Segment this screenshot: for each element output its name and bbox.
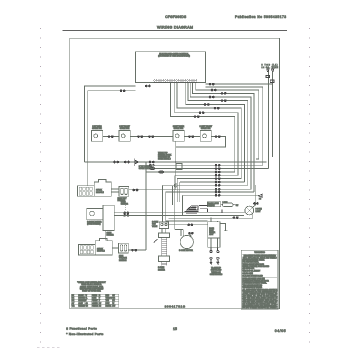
legend table text — [72, 294, 116, 307]
fold mark right dotted line — [309, 28, 311, 346]
svg-text:NOTE: SEE SHEET 2 FOR THE: NOTE: SEE SHEET 2 FOR THE — [242, 278, 264, 280]
oven gas valve solenoid — [159, 222, 168, 228]
svg-text:IGNITER: IGNITER — [158, 269, 166, 271]
components note text — [77, 281, 106, 293]
junction dot — [175, 161, 177, 163]
oven sensor double wire — [114, 213, 245, 216]
fan wires connector pairs — [194, 83, 226, 117]
wire drop from chain through junction — [175, 141, 177, 190]
convection motor circle — [180, 235, 193, 248]
fan wire F6 — [188, 83, 248, 186]
wire color legend table — [71, 294, 118, 307]
oven light wire top — [252, 185, 255, 207]
svg-text:USED ON YOUR UNIT.: USED ON YOUR UNIT. — [82, 291, 101, 293]
sensor drop dashed — [124, 205, 126, 211]
svg-text:WIRING DIAGRAM: WIRING DIAGRAM — [157, 26, 193, 30]
wire drops from rows to lower components — [163, 175, 183, 229]
lock motor top wires — [211, 218, 217, 222]
svg-text:(OVEN BURNER): (OVEN BURNER) — [87, 223, 101, 225]
svg-text:‡ CONV MOTOR: ‡ CONV MOTOR — [179, 250, 194, 252]
svg-text:PINK: PINK — [106, 303, 110, 305]
fan wire F2 — [205, 87, 262, 165]
junction arrow marker — [259, 194, 262, 197]
warning box — [241, 250, 278, 309]
lower row wire to oven light — [169, 214, 253, 218]
junction node circle — [174, 184, 177, 187]
svg-text:14 GA. WIRE: 14 GA. WIRE — [262, 66, 279, 69]
svg-text:SOME MODELS: SOME MODELS — [210, 274, 223, 276]
svg-text:VALVE: VALVE — [152, 225, 158, 228]
svg-text:WARNING: WARNING — [254, 251, 265, 254]
svg-text:CFGF366DS: CFGF366DS — [165, 15, 186, 19]
svg-text:VIOLET: VIOLET — [92, 300, 97, 302]
convection motor wires — [175, 230, 192, 237]
wire module B to HV B — [112, 248, 146, 250]
oven light lamp — [245, 206, 254, 215]
lock motor harness arrows — [210, 260, 220, 264]
supply row link down — [145, 162, 147, 250]
svg-text:SPARK SW.: SPARK SW. — [174, 127, 184, 130]
svg-text:(MOUNTED IN THE BACKGUARD): (MOUNTED IN THE BACKGUARD) — [158, 55, 190, 58]
svg-text:BK: BK — [72, 295, 74, 297]
lock motor harness plug circles — [210, 257, 219, 259]
regulator pointer squiggle — [154, 239, 158, 243]
svg-text:WIRING SHOWN WITH DOOR: WIRING SHOWN WITH DOOR — [242, 264, 264, 266]
wire L1 from control to left bus — [85, 86, 136, 162]
svg-text:COLOR CODE: COLOR CODE — [242, 273, 252, 275]
svg-text:SEE OWNERS GUIDE FOR INSTRUCTI: SEE OWNERS GUIDE FOR INSTRUCTIONS. — [242, 305, 277, 307]
row end terminal labels — [149, 164, 163, 173]
burner chain connector pairs — [108, 136, 220, 138]
lock motor terminals — [210, 247, 219, 252]
svg-text:SWITCH: SWITCH — [208, 205, 215, 207]
lock motor stub wire — [220, 224, 227, 231]
fan wire F1 — [205, 83, 272, 85]
svg-text:LIGHT: LIGHT — [256, 211, 261, 213]
fold mark bottom-left dashes — [37, 346, 61, 348]
fold mark left dotted line — [40, 28, 42, 346]
connector on conv motor wire — [189, 232, 194, 234]
svg-text:P3: P3 — [259, 199, 261, 201]
svg-text:SOME MODELS: SOME MODELS — [158, 159, 171, 161]
wire tall box to module B — [105, 231, 107, 241]
svg-text:MODULE: MODULE — [96, 192, 104, 194]
fan wire F5 — [190, 83, 251, 190]
svg-text:SPARK SW.: SPARK SW. — [120, 127, 130, 130]
middle rows connector pairs — [215, 164, 220, 196]
svg-text:‡ Functional Parts: ‡ Functional Parts — [66, 326, 97, 330]
top burner supply wire row — [85, 161, 267, 163]
middle row wire M10 — [146, 165, 268, 195]
svg-text:RB: RB — [99, 305, 101, 307]
spark igniter box — [87, 209, 103, 220]
svg-text:Y: Y — [99, 298, 100, 300]
svg-text:SPARK SW.: SPARK SW. — [92, 127, 102, 130]
TOD symbols — [267, 69, 274, 72]
supply row plug box — [176, 163, 182, 169]
oven burner tall box — [103, 205, 114, 230]
svg-text:GREEN: GREEN — [92, 303, 97, 305]
svg-text:PK: PK — [113, 300, 115, 302]
svg-text:SPARK SW.: SPARK SW. — [201, 127, 211, 130]
spark module B body — [79, 238, 113, 255]
HV transformer B box — [119, 243, 129, 253]
spark switch SW2 box — [119, 131, 130, 142]
svg-text:IGNITION: IGNITION — [119, 260, 127, 262]
connector P1 strip under control board — [154, 80, 198, 82]
igniter cable ladder lower — [162, 261, 167, 265]
connector pair on wire L1 — [145, 85, 150, 87]
fan wire F8 — [177, 83, 241, 179]
svg-text:BROWN: BROWN — [79, 298, 85, 300]
wire module A to HV A — [111, 189, 251, 192]
fan wire F3 — [196, 83, 259, 160]
connector on light wire — [254, 203, 259, 205]
door latch cluster — [185, 202, 238, 213]
svg-text:MOTOR: MOTOR — [209, 232, 216, 234]
svg-text:T: T — [99, 300, 100, 302]
svg-text:V: V — [86, 300, 87, 302]
svg-text:30641781G: 30641781G — [165, 305, 186, 309]
svg-text:PK: PK — [99, 303, 101, 305]
lock motor box — [208, 222, 220, 248]
svg-text:WB: WB — [86, 305, 88, 307]
igniter connector block — [158, 256, 169, 262]
wire valve to lock box — [169, 224, 208, 226]
svg-text:15: 15 — [173, 327, 177, 331]
fan wire F10 — [170, 83, 234, 173]
svg-text:WHITE: WHITE — [92, 295, 97, 297]
gas valve regulator body — [158, 233, 169, 238]
spark switch SW3 box — [173, 131, 184, 142]
connector pair lower row — [233, 217, 238, 219]
connector pair on HV A wire — [133, 189, 138, 191]
TOD wire stubs — [268, 72, 272, 169]
connector pair on supply row — [114, 161, 130, 163]
svg-text:Publication No 5995435173: Publication No 5995435173 — [235, 15, 286, 19]
svg-text:BLUE: BLUE — [92, 298, 96, 300]
svg-text:BURNER: BURNER — [107, 234, 115, 236]
spark switch SW4 box — [200, 131, 211, 142]
header rule line — [62, 30, 287, 32]
connector pair on wire L2 — [120, 90, 125, 92]
svg-text:SENSOR: SENSOR — [121, 203, 129, 205]
plug symbol on supply row — [134, 158, 138, 166]
connector pair on valve-lock wire — [188, 224, 193, 226]
svg-text:RD/BLK: RD/BLK — [106, 305, 111, 307]
fan wire F9 — [175, 83, 238, 176]
HV transformer A box — [119, 187, 129, 197]
svg-text:DISCONNECT POWER BEFORE SERVIC: DISCONNECT POWER BEFORE SERVICING — [244, 255, 277, 257]
svg-text:WH/BLK: WH/BLK — [92, 305, 98, 307]
TOD small labels — [266, 75, 274, 82]
svg-text:MODULE: MODULE — [97, 251, 105, 253]
fan wire F4 — [192, 83, 254, 193]
spark switch SW1 box — [92, 131, 103, 142]
spark module A body — [78, 180, 112, 197]
burner chain wire — [103, 137, 226, 147]
connector pair on supply row left of label — [149, 161, 154, 163]
svg-text:GY: GY — [72, 303, 74, 305]
electronic oven control U1 box — [135, 52, 205, 83]
lower row wire two — [166, 220, 208, 222]
diagram border frame — [70, 38, 280, 308]
igniter cable ladder upper — [162, 238, 167, 256]
sensor connector cluster — [124, 212, 129, 216]
svg-text:BL: BL — [86, 298, 88, 300]
svg-text:04/05: 04/05 — [275, 329, 286, 333]
fan wire F7 — [186, 83, 245, 183]
connector pair on HV B wire — [132, 249, 137, 251]
svg-text:GY: GY — [113, 295, 115, 297]
valve internal links — [162, 229, 166, 234]
wire L2 from control to left bus — [88, 91, 136, 186]
svg-text:* Non-Illustrated Parts: * Non-Illustrated Parts — [66, 332, 104, 336]
